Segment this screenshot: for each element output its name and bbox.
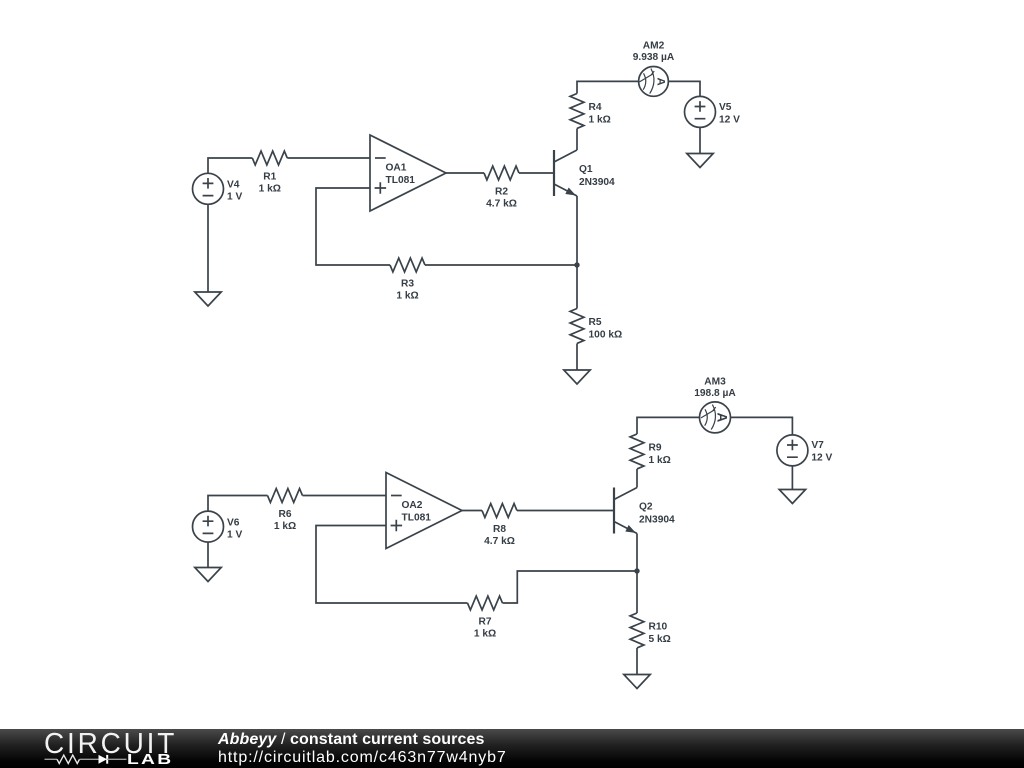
voltage source V5 <box>685 96 741 127</box>
svg-text:TL081: TL081 <box>402 513 432 524</box>
svg-text:R4: R4 <box>589 102 602 113</box>
svg-text:A: A <box>655 77 667 85</box>
CircuitLab logo text CIRCUIT <box>44 727 177 760</box>
wire R8 to Q2 base <box>517 510 614 512</box>
svg-text:2N3904: 2N3904 <box>579 177 615 188</box>
voltage source V4 <box>193 173 243 204</box>
ground <box>195 568 221 582</box>
svg-text:198.8 µA: 198.8 µA <box>694 388 736 399</box>
svg-text:V6: V6 <box>227 518 240 529</box>
ground <box>564 370 590 384</box>
url line <box>218 749 507 767</box>
svg-text:R1: R1 <box>263 172 276 183</box>
svg-text:R3: R3 <box>401 279 414 290</box>
wire node B to R10 <box>636 571 638 613</box>
resistor R7 <box>468 596 503 639</box>
svg-text:OA2: OA2 <box>402 500 423 511</box>
ground <box>624 675 650 689</box>
svg-text:A: A <box>715 413 730 423</box>
op-amp OA1 <box>370 135 446 211</box>
svg-text:4.7 kΩ: 4.7 kΩ <box>484 536 515 547</box>
wire V6 to ground <box>207 542 209 567</box>
ground <box>687 154 713 168</box>
wire V5 to ground <box>699 127 701 153</box>
svg-text:100 kΩ: 100 kΩ <box>589 330 623 341</box>
wire V6 to R6 <box>208 496 268 512</box>
wire AM2 to V5 <box>669 81 700 96</box>
svg-text:AM3: AM3 <box>704 376 726 387</box>
resistor R8 <box>482 504 517 547</box>
footer bar <box>0 729 1024 768</box>
svg-text:12 V: 12 V <box>719 115 740 126</box>
logo text LAB <box>127 751 173 768</box>
svg-text:R5: R5 <box>589 317 602 328</box>
transistor Q1 <box>554 150 615 196</box>
logo wire mid <box>80 758 99 760</box>
logo resistor <box>57 755 80 763</box>
svg-text:R10: R10 <box>649 622 668 633</box>
resistor R2 <box>484 166 519 210</box>
resistor R9 <box>630 434 671 469</box>
svg-text:1 V: 1 V <box>227 529 242 540</box>
resistor R3 <box>390 258 425 302</box>
svg-text:1 kΩ: 1 kΩ <box>474 629 496 640</box>
wire R3 to node A <box>425 264 577 266</box>
wire R9 to AM3 <box>637 417 700 434</box>
node A <box>574 262 579 267</box>
wire Q1 emitter to node A <box>576 196 578 265</box>
svg-text:1 kΩ: 1 kΩ <box>274 521 296 532</box>
svg-text:TL081: TL081 <box>386 175 416 186</box>
wire R2 to Q1 base <box>519 172 554 174</box>
wire Q2 emitter to node B <box>636 534 638 572</box>
wire feedback OA2 + input to R7 <box>316 526 468 604</box>
wire V4 to R1 <box>208 158 252 173</box>
wire OA1 output to R2 <box>446 172 484 174</box>
ammeter AM3 <box>694 376 736 433</box>
logo schematic: wire resistor diode <box>44 752 134 768</box>
wire R10 to ground <box>636 648 638 675</box>
svg-text:1 V: 1 V <box>227 192 242 203</box>
logo diode <box>99 755 108 764</box>
ground <box>779 490 805 504</box>
svg-text:AM2: AM2 <box>643 40 665 51</box>
transistor Q2 <box>614 488 675 534</box>
svg-text:OA1: OA1 <box>386 162 407 173</box>
wire Q1 collector to R4 <box>576 129 578 151</box>
voltage source V7 <box>777 435 833 466</box>
op-amp OA2 <box>386 473 462 549</box>
wire node A to R5 <box>576 265 578 309</box>
resistor R6 <box>268 489 303 532</box>
ground <box>195 292 221 306</box>
svg-text:5 kΩ: 5 kΩ <box>649 634 671 645</box>
svg-text:V4: V4 <box>227 180 240 191</box>
resistor R10 <box>630 613 671 648</box>
svg-text:R6: R6 <box>278 509 291 520</box>
svg-text:1 kΩ: 1 kΩ <box>396 291 418 302</box>
svg-text:V5: V5 <box>719 102 732 113</box>
svg-text:2N3904: 2N3904 <box>639 514 675 525</box>
wire OA2 output to R8 <box>462 510 482 512</box>
wire R4 to AM2 <box>577 81 638 93</box>
resistor R4 <box>570 94 611 129</box>
svg-text:1 kΩ: 1 kΩ <box>649 455 671 466</box>
resistor R1 <box>252 151 287 195</box>
wire V7 to ground <box>791 466 793 490</box>
svg-text:9.938 µA: 9.938 µA <box>633 52 675 63</box>
voltage source V6 <box>193 511 243 542</box>
svg-text:R8: R8 <box>493 524 506 535</box>
logo wire right <box>107 758 126 760</box>
svg-text:R2: R2 <box>495 187 508 198</box>
svg-text:Q2: Q2 <box>639 501 653 512</box>
node B <box>634 568 639 573</box>
svg-text:V7: V7 <box>811 440 824 451</box>
logo wire left <box>45 758 58 760</box>
resistor R5 <box>570 309 622 344</box>
wire R6 to OA2 inverting input <box>303 495 387 497</box>
svg-text:12 V: 12 V <box>811 453 832 464</box>
svg-text:1 kΩ: 1 kΩ <box>259 184 281 195</box>
wire V4 to ground <box>207 204 209 292</box>
title line <box>218 731 485 749</box>
wire AM3 to V7 <box>731 417 793 435</box>
wire feedback OA1 + input to R3 <box>316 188 390 265</box>
svg-text:4.7 kΩ: 4.7 kΩ <box>486 199 517 210</box>
wire R1 to OA1 inverting input <box>287 157 370 159</box>
svg-text:R9: R9 <box>649 443 662 454</box>
wire Q2 collector to R9 <box>636 469 638 488</box>
svg-text:Q1: Q1 <box>579 164 593 175</box>
ammeter AM2 <box>633 40 675 96</box>
svg-text:1 kΩ: 1 kΩ <box>589 115 611 126</box>
wire R7 to node B <box>503 571 638 603</box>
wire R5 to ground <box>576 344 578 371</box>
svg-text:R7: R7 <box>478 617 491 628</box>
